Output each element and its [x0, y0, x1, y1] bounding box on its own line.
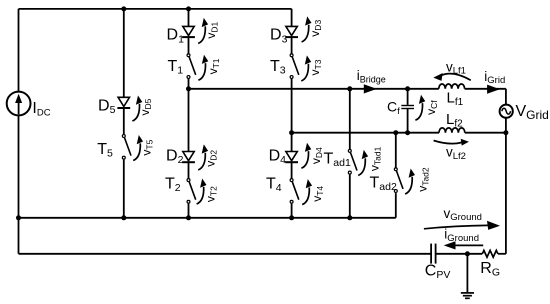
svg-text:D1: D1	[167, 27, 185, 46]
node VGrid bottom	[503, 130, 508, 135]
voltage arrow vT1	[198, 55, 208, 80]
node Cf bottom	[405, 130, 410, 135]
svg-text:vGround: vGround	[444, 206, 482, 223]
svg-text:RG: RG	[480, 260, 500, 279]
inductor Lf1	[439, 84, 465, 89]
switch T1	[187, 54, 196, 79]
voltage arrow vD3	[302, 16, 312, 42]
switch Tad1	[348, 149, 357, 174]
svg-text:vCf: vCf	[424, 100, 439, 115]
current arrow iGround	[444, 241, 484, 249]
capacitor CPV	[431, 244, 436, 264]
wire Tad1 branch	[349, 89, 351, 218]
wire bridge output bottom	[292, 132, 439, 134]
node bus T5	[121, 215, 126, 220]
switch T4	[290, 179, 299, 204]
svg-text:vLf1: vLf1	[446, 60, 466, 77]
svg-text:T4: T4	[266, 175, 282, 194]
svg-text:vD4: vD4	[309, 147, 324, 164]
voltage arrow vTad2	[405, 169, 415, 195]
voltage arrow vT5	[133, 135, 143, 161]
svg-text:T1: T1	[168, 58, 184, 77]
svg-text:D5: D5	[98, 97, 116, 116]
svg-text:iGround: iGround	[444, 227, 479, 244]
current arrow iBridge	[364, 84, 377, 93]
svg-text:D2: D2	[166, 147, 184, 166]
svg-text:T2: T2	[165, 175, 181, 194]
svg-text:vT4: vT4	[310, 186, 325, 202]
wire RG to right rail	[498, 253, 506, 255]
node top D1	[186, 6, 191, 11]
ground	[461, 293, 474, 298]
capacitor Cf	[401, 106, 414, 109]
svg-text:T3: T3	[270, 58, 286, 77]
node Tad1 top	[347, 86, 352, 91]
voltage arrow vT4	[302, 179, 312, 205]
voltage arrow vGround	[424, 221, 500, 230]
switch T5	[122, 135, 131, 160]
svg-text:IDC: IDC	[32, 100, 50, 118]
switch T2	[187, 179, 196, 204]
wire D5 branch	[123, 9, 125, 218]
wire D3 T3 branch	[291, 9, 293, 133]
wire Cf branch	[407, 89, 409, 133]
voltage arrow vD1	[198, 18, 208, 44]
diode D5	[117, 97, 130, 108]
svg-text:vTad1: vTad1	[368, 146, 383, 171]
voltage arrow vLf1	[433, 73, 471, 81]
wire ground stem	[466, 254, 468, 293]
diode D4	[285, 152, 298, 163]
switch T3	[290, 54, 299, 79]
wire bridge output top	[189, 88, 439, 90]
voltage arrow vLf2	[434, 139, 469, 146]
diode D1	[182, 26, 195, 37]
voltage arrow vD5	[132, 96, 142, 122]
wire top bus	[19, 8, 292, 10]
voltage arrow vTad1	[358, 150, 368, 176]
svg-text:VGrid: VGrid	[516, 103, 549, 122]
svg-text:Tad2: Tad2	[370, 174, 397, 193]
svg-text:D3: D3	[270, 27, 288, 46]
voltage arrow vD4	[301, 143, 311, 169]
wire right rail	[505, 89, 507, 254]
voltage arrow vT2	[197, 179, 207, 205]
svg-text:Lf1: Lf1	[447, 90, 464, 108]
voltage arrow vT3	[301, 55, 311, 81]
wire left rail	[18, 9, 20, 254]
node D4 top	[289, 130, 294, 135]
svg-text:vT2: vT2	[203, 186, 218, 202]
wire CPV to RG	[436, 253, 483, 255]
svg-text:iGrid: iGrid	[484, 69, 505, 86]
node ground junction	[465, 251, 470, 256]
wire Tad2 branch	[395, 133, 397, 218]
wire D2 T2 branch	[188, 89, 190, 218]
voltage source VGrid	[500, 105, 513, 118]
node bus left	[16, 215, 21, 220]
wire Lf1 to grid	[465, 88, 506, 90]
svg-text:iBridge: iBridge	[357, 68, 386, 84]
diode D3	[285, 26, 298, 37]
node top D5	[121, 6, 126, 11]
svg-text:CPV: CPV	[425, 263, 451, 282]
svg-text:vT1: vT1	[206, 58, 221, 74]
voltage arrow vD2	[198, 144, 208, 170]
node bus Tad1	[347, 215, 352, 220]
svg-text:vTad2: vTad2	[415, 167, 430, 192]
node T1 output	[186, 86, 191, 91]
current arrow iGrid	[487, 85, 500, 94]
wire D1 T1 branch	[188, 9, 190, 89]
node Cf top	[405, 86, 410, 91]
wire bottom return	[19, 253, 432, 255]
wire bottom bus	[19, 217, 396, 219]
svg-text:Lf2: Lf2	[446, 111, 463, 129]
wire D4 T4 branch	[291, 133, 293, 218]
voltage arrow vCf	[415, 95, 425, 121]
svg-text:vLf2: vLf2	[446, 145, 466, 162]
node bus T4	[289, 215, 294, 220]
diode D2	[182, 152, 195, 163]
current source IDC	[7, 92, 31, 116]
wire Lf2 to grid	[465, 132, 506, 134]
switch Tad2	[394, 168, 403, 193]
node bus T2	[186, 215, 191, 220]
inductor Lf2	[439, 128, 465, 133]
svg-text:Cf: Cf	[387, 99, 400, 117]
svg-text:Tad1: Tad1	[324, 150, 351, 169]
svg-text:D4: D4	[269, 147, 287, 166]
node Tad2 top	[393, 130, 398, 135]
svg-text:T5: T5	[97, 141, 113, 160]
resistor RG	[482, 250, 498, 257]
